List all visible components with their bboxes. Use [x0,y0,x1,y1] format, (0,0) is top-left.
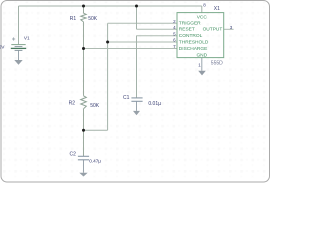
svg-text:GND: GND [196,53,207,59]
wire discharge pin 7 [84,48,178,50]
resistor R1 [81,13,86,22]
svg-text:C2: C2 [70,152,77,158]
svg-text:VCC: VCC [197,15,208,21]
wire VCC top rail [19,5,202,7]
wire C1 bottom lead [136,101,138,111]
svg-text:0.01µ: 0.01µ [148,101,161,107]
svg-text:R2: R2 [69,101,76,107]
svg-text:CONTROL: CONTROL [179,33,203,39]
ground below C1 [133,111,140,115]
ground below pin 1 [198,71,206,76]
ground below C2 [79,173,87,177]
svg-text:C1: C1 [123,95,130,101]
svg-text:RESET: RESET [179,27,195,33]
svg-text:TRIGGER: TRIGGER [179,20,201,26]
wire trigger/threshold riser [107,23,109,130]
wire control pin 5 [136,35,177,37]
wire bottom node to riser corner [84,129,108,131]
svg-text:R1: R1 [70,16,77,22]
wire VCC drop to pin 8 [201,6,203,13]
svg-text:V1: V1 [24,36,30,41]
wire R2 bottom lead [83,109,85,130]
wire output pin 3 stub [224,28,234,30]
wire C2 top lead [83,130,85,156]
wire reset riser from VCC rail [136,6,138,29]
svg-text:DISCHARGE: DISCHARGE [179,46,208,52]
battery V1 [11,37,26,50]
wire pin 1 gnd lead [201,58,203,71]
wire C2 bottom lead [83,160,85,173]
svg-text:50K: 50K [88,16,98,22]
timer U1 body (555) [177,13,224,58]
svg-text:X1: X1 [214,6,220,12]
ground below battery [14,60,22,65]
wire control drop to C1 [136,36,138,98]
resistor R2 [81,96,87,109]
wire battery bottom lead [18,51,20,61]
wire battery top lead [18,6,20,44]
node VCC/R1 junction [82,5,85,8]
capacitor C1 [131,98,142,101]
wire R1 bottom to discharge node [83,22,85,49]
svg-text:0.47µ: 0.47µ [89,159,101,164]
node R1/R2/discharge junction [82,47,85,50]
capacitor C2 [78,156,89,160]
wire reset pin 4 [137,28,178,30]
svg-text:OUTPUT: OUTPUT [203,27,223,33]
svg-text:50K: 50K [90,103,100,109]
node threshold/trigger junction [106,41,109,44]
svg-text:THRESHOLD: THRESHOLD [179,39,209,45]
wire discharge node to R2 top [83,49,85,96]
wire trigger pin 2 [108,22,177,24]
svg-text:555D: 555D [211,61,223,67]
node VCC/reset riser junction [135,5,138,8]
wire R1 top lead [83,6,85,13]
svg-text:5V: 5V [0,45,5,51]
node R2/C2 junction [82,129,85,132]
wire threshold pin 6 [108,41,177,43]
